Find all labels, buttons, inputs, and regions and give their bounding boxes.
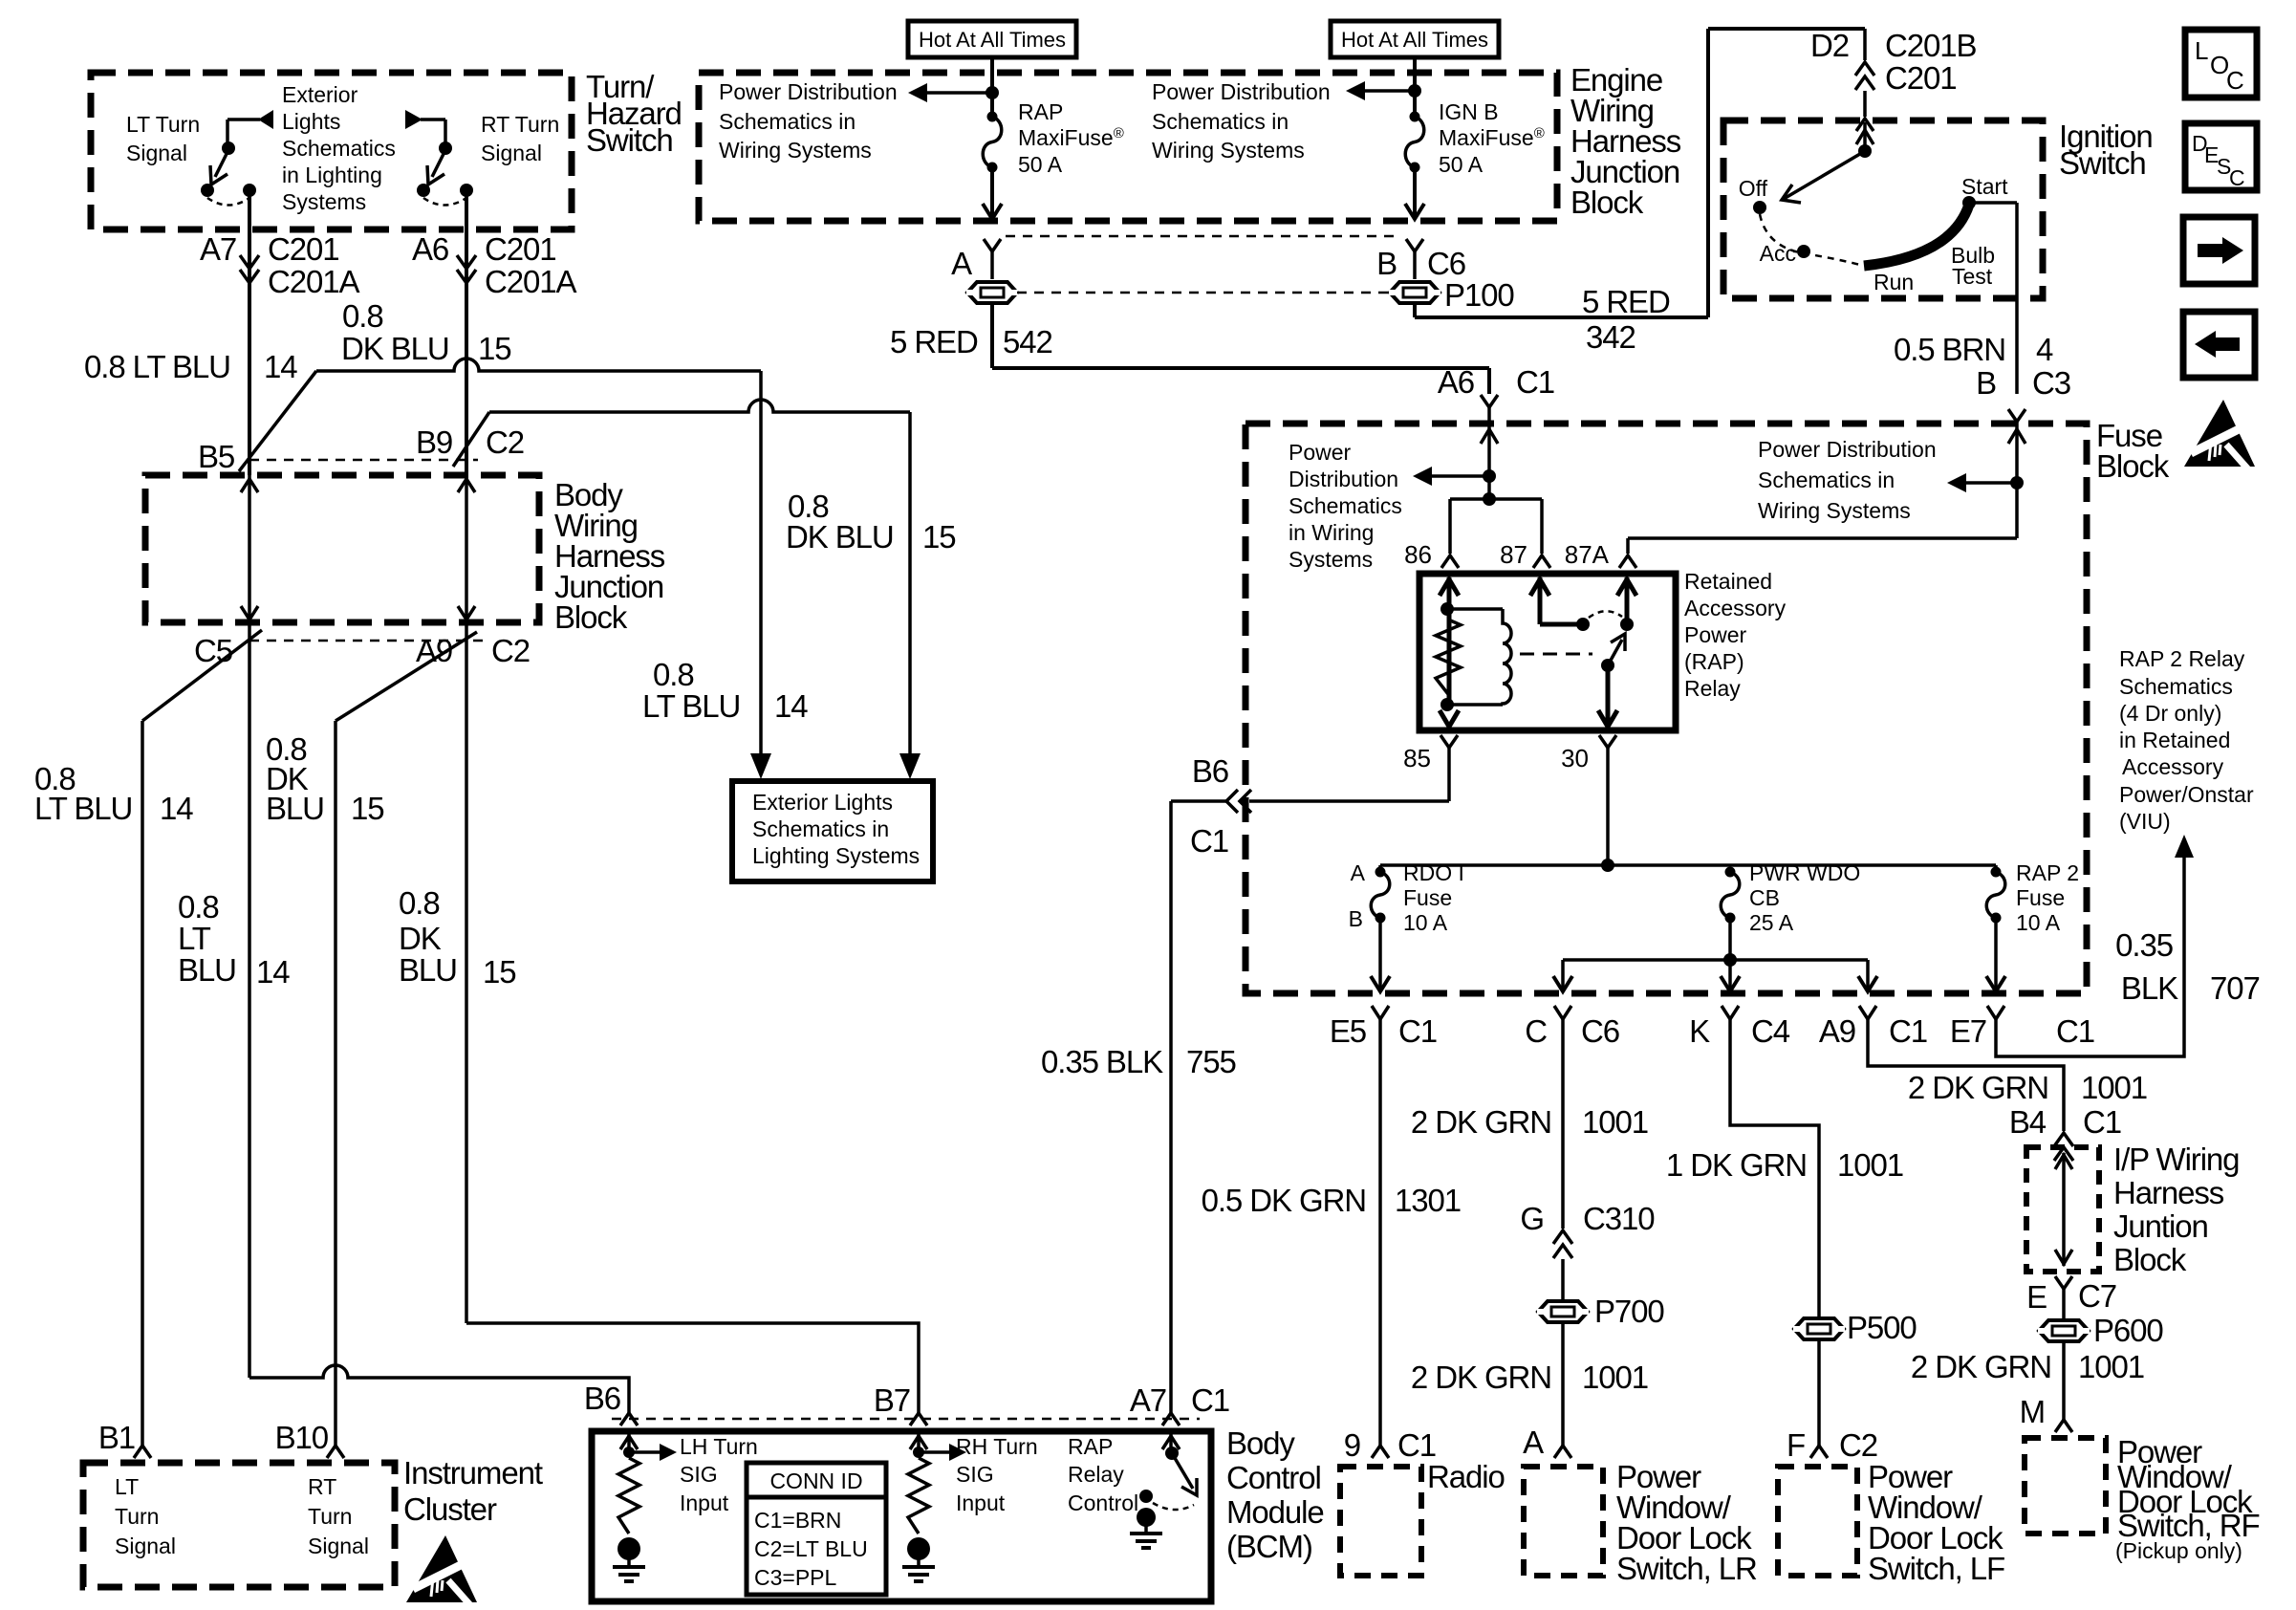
svg-text:E7: E7 (1950, 1013, 1986, 1049)
svg-text:BLK: BLK (2121, 970, 2178, 1006)
svg-text:in Lighting: in Lighting (282, 163, 382, 187)
svg-text:L: L (2195, 36, 2208, 65)
svg-text:Test: Test (1952, 264, 1993, 289)
svg-text:IGN B: IGN B (1439, 99, 1499, 124)
svg-text:Control: Control (1068, 1490, 1138, 1515)
svg-text:Turn: Turn (308, 1504, 352, 1529)
svg-text:C4: C4 (1751, 1013, 1790, 1049)
svg-text:Signal: Signal (308, 1534, 369, 1558)
svg-text:I/P Wiring: I/P Wiring (2113, 1142, 2239, 1177)
svg-text:B6: B6 (1192, 753, 1228, 789)
svg-text:Systems: Systems (282, 189, 366, 214)
svg-text:Schematics in: Schematics in (752, 816, 889, 841)
svg-text:RDO I: RDO I (1403, 860, 1464, 885)
svg-text:Lights: Lights (282, 109, 340, 134)
svg-text:(Pickup only): (Pickup only) (2115, 1538, 2242, 1563)
svg-text:2 DK GRN: 2 DK GRN (1411, 1360, 1551, 1395)
svg-text:K: K (1689, 1013, 1710, 1049)
svg-text:85: 85 (1403, 744, 1431, 772)
svg-text:RT: RT (308, 1474, 336, 1499)
svg-text:Wiring Systems: Wiring Systems (1758, 498, 1911, 523)
svg-text:C1: C1 (1191, 1382, 1229, 1418)
svg-text:C2: C2 (1839, 1427, 1877, 1463)
svg-text:Switch: Switch (2059, 145, 2146, 181)
svg-text:B1: B1 (98, 1420, 135, 1455)
svg-text:C7: C7 (2078, 1278, 2116, 1314)
svg-text:0.8 LT BLU: 0.8 LT BLU (84, 349, 230, 384)
svg-text:0.35 BLK: 0.35 BLK (1041, 1044, 1163, 1079)
svg-text:LT BLU: LT BLU (642, 688, 740, 724)
svg-text:755: 755 (1186, 1044, 1236, 1079)
svg-text:BLU: BLU (266, 791, 324, 826)
svg-text:LT: LT (178, 921, 211, 956)
svg-text:10 A: 10 A (2016, 910, 2061, 935)
svg-text:Power: Power (1289, 440, 1352, 465)
svg-text:Schematics in: Schematics in (1152, 109, 1289, 134)
svg-text:5 RED: 5 RED (890, 324, 978, 359)
svg-text:E5: E5 (1330, 1013, 1366, 1049)
svg-text:Accessory: Accessory (1684, 596, 1787, 620)
svg-text:RAP: RAP (1018, 99, 1063, 124)
svg-text:C201B: C201B (1885, 28, 1976, 63)
svg-text:Lighting Systems: Lighting Systems (752, 843, 920, 868)
svg-text:Input: Input (956, 1490, 1006, 1515)
svg-text:in Wiring: in Wiring (1289, 520, 1374, 545)
svg-text:Accessory: Accessory (2122, 754, 2224, 779)
svg-text:Schematics: Schematics (2119, 674, 2233, 699)
svg-text:Harness: Harness (2113, 1175, 2224, 1210)
svg-text:1001: 1001 (1582, 1104, 1648, 1140)
svg-text:C1: C1 (2083, 1104, 2121, 1140)
svg-text:B: B (1349, 906, 1363, 931)
svg-text:50 A: 50 A (1018, 152, 1063, 177)
svg-text:2 DK GRN: 2 DK GRN (1908, 1070, 2048, 1105)
svg-text:Power: Power (1684, 622, 1747, 647)
svg-text:DK: DK (399, 921, 442, 956)
svg-text:C: C (1525, 1013, 1547, 1049)
svg-text:Switch, LF: Switch, LF (1868, 1551, 2004, 1586)
svg-text:C2: C2 (486, 424, 524, 460)
svg-text:Signal: Signal (115, 1534, 176, 1558)
svg-text:DK BLU: DK BLU (341, 331, 449, 366)
svg-text:MaxiFuse®: MaxiFuse® (1018, 125, 1124, 150)
svg-text:14: 14 (264, 349, 297, 384)
svg-text:C201A: C201A (268, 264, 359, 299)
svg-text:LT Turn: LT Turn (126, 112, 200, 137)
svg-text:0.8: 0.8 (178, 889, 219, 925)
svg-text:C310: C310 (1583, 1201, 1655, 1236)
svg-text:Schematics: Schematics (282, 136, 396, 161)
svg-text:BLU: BLU (399, 952, 457, 988)
svg-text:A: A (1351, 860, 1366, 885)
svg-text:D2: D2 (1810, 28, 1849, 63)
svg-text:1 DK GRN: 1 DK GRN (1666, 1147, 1807, 1183)
svg-text:Body: Body (1226, 1425, 1295, 1461)
svg-text:1301: 1301 (1395, 1183, 1461, 1218)
svg-text:Fuse: Fuse (1403, 885, 1452, 910)
svg-text:C: C (2226, 66, 2244, 95)
svg-text:9: 9 (1344, 1427, 1360, 1463)
svg-text:CB: CB (1749, 885, 1780, 910)
svg-text:0.8: 0.8 (653, 657, 694, 692)
svg-text:Signal: Signal (481, 141, 542, 165)
svg-text:1001: 1001 (2081, 1070, 2147, 1105)
svg-text:Cluster: Cluster (403, 1491, 497, 1527)
svg-text:Block: Block (554, 599, 628, 635)
svg-text:C3: C3 (2032, 365, 2070, 401)
svg-text:14: 14 (774, 688, 808, 724)
svg-text:A: A (951, 246, 972, 281)
svg-text:SIG: SIG (680, 1462, 718, 1487)
svg-text:87: 87 (1500, 540, 1527, 569)
svg-text:Relay: Relay (1684, 676, 1741, 701)
svg-text:542: 542 (1003, 324, 1052, 359)
svg-text:B4: B4 (2009, 1104, 2047, 1140)
svg-text:C6: C6 (1581, 1013, 1619, 1049)
svg-text:Block: Block (2113, 1242, 2187, 1277)
svg-text:LH Turn: LH Turn (680, 1434, 758, 1459)
svg-text:B: B (1976, 365, 1996, 401)
svg-text:Signal: Signal (126, 141, 187, 165)
svg-text:B7: B7 (874, 1382, 910, 1418)
svg-text:C1: C1 (2056, 1013, 2094, 1049)
svg-text:B6: B6 (584, 1381, 620, 1416)
svg-text:Retained: Retained (1684, 569, 1772, 594)
svg-text:RAP 2: RAP 2 (2016, 860, 2079, 885)
svg-text:707: 707 (2210, 970, 2260, 1006)
svg-text:86: 86 (1404, 540, 1432, 569)
svg-text:C1: C1 (1889, 1013, 1927, 1049)
svg-text:B9: B9 (416, 424, 452, 460)
svg-text:F: F (1787, 1427, 1805, 1463)
svg-text:E: E (2026, 1279, 2047, 1315)
svg-text:Power/Onstar: Power/Onstar (2119, 782, 2254, 807)
svg-text:Input: Input (680, 1490, 729, 1515)
svg-text:Radio: Radio (1427, 1459, 1505, 1494)
svg-text:Exterior Lights: Exterior Lights (752, 790, 893, 815)
svg-text:15: 15 (351, 791, 384, 826)
svg-text:RAP 2 Relay: RAP 2 Relay (2119, 646, 2245, 671)
svg-text:CONN ID: CONN ID (769, 1469, 862, 1493)
svg-text:LT: LT (115, 1474, 139, 1499)
svg-text:C: C (2229, 165, 2245, 190)
svg-text:B5: B5 (198, 439, 234, 474)
svg-text:15: 15 (478, 331, 511, 366)
svg-text:1001: 1001 (1837, 1147, 1903, 1183)
svg-text:1001: 1001 (1582, 1360, 1648, 1395)
svg-text:C1=BRN: C1=BRN (754, 1508, 841, 1533)
svg-text:Power Distribution: Power Distribution (1758, 437, 1937, 462)
svg-text:C1: C1 (1516, 364, 1554, 400)
svg-text:RH Turn: RH Turn (956, 1434, 1038, 1459)
svg-text:2 DK GRN: 2 DK GRN (1411, 1104, 1551, 1140)
svg-text:Wiring Systems: Wiring Systems (719, 138, 872, 163)
svg-text:RAP: RAP (1068, 1434, 1113, 1459)
svg-text:50 A: 50 A (1439, 152, 1484, 177)
svg-text:Juntion: Juntion (2113, 1208, 2208, 1244)
svg-text:Hot At All Times: Hot At All Times (1341, 28, 1488, 52)
svg-text:B: B (1376, 246, 1397, 281)
svg-text:25 A: 25 A (1749, 910, 1794, 935)
svg-text:Exterior: Exterior (282, 82, 358, 107)
svg-text:M: M (2020, 1394, 2045, 1429)
svg-text:A7: A7 (200, 231, 236, 267)
svg-text:C201: C201 (485, 231, 556, 267)
svg-text:C3=PPL: C3=PPL (754, 1565, 837, 1590)
svg-text:P600: P600 (2093, 1313, 2163, 1348)
svg-text:P100: P100 (1444, 277, 1514, 313)
svg-text:10 A: 10 A (1403, 910, 1448, 935)
svg-text:SIG: SIG (956, 1462, 994, 1487)
svg-text:LT BLU: LT BLU (34, 791, 132, 826)
svg-text:0.5 BRN: 0.5 BRN (1894, 332, 2005, 367)
svg-text:Run: Run (1874, 270, 1914, 294)
svg-text:Block: Block (2096, 448, 2170, 484)
svg-text:Switch: Switch (586, 122, 673, 158)
svg-text:0.5 DK GRN: 0.5 DK GRN (1202, 1183, 1366, 1218)
svg-text:Acc: Acc (1760, 241, 1796, 266)
svg-text:342: 342 (1586, 319, 1635, 355)
svg-text:Turn: Turn (115, 1504, 159, 1529)
svg-text:Wiring Systems: Wiring Systems (1152, 138, 1305, 163)
svg-text:5 RED: 5 RED (1582, 284, 1670, 319)
svg-text:0.8: 0.8 (342, 298, 383, 334)
svg-text:C1: C1 (1190, 823, 1228, 859)
svg-text:in Retained: in Retained (2119, 728, 2230, 752)
svg-text:Block: Block (1570, 185, 1644, 220)
svg-text:A: A (1523, 1425, 1544, 1460)
svg-text:(4 Dr only): (4 Dr only) (2119, 701, 2221, 726)
svg-text:C5: C5 (194, 633, 232, 668)
svg-text:15: 15 (483, 954, 516, 990)
svg-text:0.8: 0.8 (399, 885, 440, 921)
svg-text:Hot At All Times: Hot At All Times (919, 28, 1066, 52)
svg-text:A9: A9 (416, 633, 452, 668)
svg-text:Control: Control (1226, 1460, 1321, 1495)
svg-text:Power Distribution: Power Distribution (1152, 79, 1331, 104)
svg-text:RT Turn: RT Turn (481, 112, 559, 137)
svg-text:30: 30 (1561, 744, 1589, 772)
svg-text:P700: P700 (1594, 1294, 1664, 1329)
svg-text:Fuse: Fuse (2016, 885, 2065, 910)
svg-text:C1: C1 (1397, 1427, 1436, 1463)
svg-text:14: 14 (256, 954, 290, 990)
svg-text:PWR WDO: PWR WDO (1749, 860, 1860, 885)
svg-text:(BCM): (BCM) (1226, 1529, 1312, 1564)
svg-text:BLU: BLU (178, 952, 236, 988)
svg-text:Off: Off (1739, 176, 1768, 201)
svg-text:C2: C2 (491, 633, 530, 668)
svg-text:14: 14 (160, 791, 193, 826)
svg-text:C201A: C201A (485, 264, 576, 299)
svg-text:C1: C1 (1398, 1013, 1437, 1049)
svg-text:Schematics in: Schematics in (1758, 468, 1895, 492)
svg-text:A6: A6 (412, 231, 448, 267)
svg-text:(VIU): (VIU) (2119, 809, 2171, 834)
svg-text:15: 15 (922, 519, 956, 555)
svg-text:C201: C201 (268, 231, 339, 267)
svg-text:A9: A9 (1819, 1013, 1855, 1049)
svg-text:C2=LT BLU: C2=LT BLU (754, 1536, 868, 1561)
svg-text:Distribution: Distribution (1289, 467, 1398, 491)
svg-text:MaxiFuse®: MaxiFuse® (1439, 125, 1545, 150)
svg-text:G: G (1520, 1201, 1544, 1236)
svg-text:Relay: Relay (1068, 1462, 1124, 1487)
svg-text:4: 4 (2036, 332, 2053, 367)
svg-text:A7: A7 (1130, 1382, 1166, 1418)
svg-text:P500: P500 (1847, 1310, 1917, 1345)
svg-text:1001: 1001 (2078, 1349, 2144, 1384)
svg-text:Start: Start (1961, 174, 2008, 199)
svg-text:Power Distribution: Power Distribution (719, 79, 898, 104)
svg-text:(RAP): (RAP) (1684, 649, 1744, 674)
svg-text:Module: Module (1226, 1494, 1324, 1530)
svg-text:C6: C6 (1427, 246, 1465, 281)
svg-text:DK BLU: DK BLU (786, 519, 894, 555)
svg-text:Schematics in: Schematics in (719, 109, 856, 134)
svg-text:Schematics: Schematics (1289, 493, 1402, 518)
svg-text:Instrument: Instrument (403, 1455, 543, 1490)
svg-text:2 DK GRN: 2 DK GRN (1911, 1349, 2051, 1384)
svg-text:Switch, LR: Switch, LR (1616, 1551, 1757, 1586)
svg-text:0.35: 0.35 (2115, 927, 2173, 963)
svg-text:Systems: Systems (1289, 547, 1373, 572)
svg-text:C201: C201 (1885, 60, 1957, 96)
svg-text:A6: A6 (1438, 364, 1474, 400)
svg-text:87A: 87A (1565, 540, 1610, 569)
svg-text:B10: B10 (275, 1420, 329, 1455)
